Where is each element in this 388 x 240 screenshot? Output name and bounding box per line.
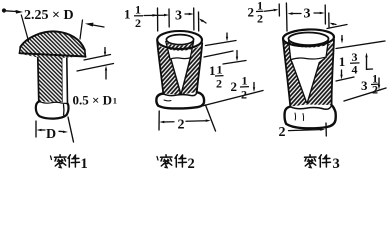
svg-text:1: 1 — [339, 54, 346, 69]
caption part3: char ling — [305, 155, 317, 168]
svg-text:4: 4 — [352, 63, 358, 77]
dim 0.5xD1 upper arrow — [104, 48, 106, 53]
shank right edge — [66, 58, 69, 104]
cup2 right outer wall — [197, 43, 202, 93]
caption part2: char jian — [175, 155, 187, 167]
extension tick t3 — [193, 8, 195, 30]
extension tick s3 — [324, 5, 326, 24]
svg-text:0.5 × D: 0.5 × D — [73, 93, 113, 108]
svg-text:2: 2 — [257, 12, 263, 26]
part3 right stack: extension line S1 — [327, 25, 347, 29]
cup3 hatched section — [283, 39, 334, 107]
part2 right stack: arrow down to R3 — [253, 83, 255, 88]
cup2 inner right wall — [190, 42, 193, 58]
cup3 base outline — [285, 105, 336, 128]
svg-text:2: 2 — [178, 118, 185, 133]
svg-text:D: D — [46, 127, 56, 142]
caption part3: char jian — [319, 155, 331, 167]
dim 3 left line/arrow — [292, 13, 301, 15]
shank left edge — [38, 58, 39, 103]
extension tick t2 — [168, 9, 170, 27]
svg-text:1: 1 — [81, 156, 88, 171]
svg-text:2: 2 — [188, 156, 195, 171]
dim 2 line with arrows — [163, 121, 174, 123]
svg-text:3: 3 — [361, 78, 368, 93]
dim 2 right extension (slanted) — [206, 105, 216, 131]
dim 2.25xD right arrowhead — [85, 23, 94, 27]
part3 right stack: arrow up (floating) — [341, 36, 343, 40]
cup2 cone right edge — [181, 59, 190, 94]
dim D right extension line (slanted) — [68, 117, 74, 142]
cup2 interior wavy line — [169, 57, 192, 59]
part2 right stack: arrow down to R1 — [226, 33, 228, 37]
dim 0.5xD1 lower arrow — [105, 70, 107, 79]
svg-text:2: 2 — [372, 83, 378, 97]
dim 2.25xD right leader line — [90, 25, 104, 28]
part3 right stack: arrow down to S3 — [378, 78, 380, 85]
rivet head right end face — [84, 50, 87, 57]
dim D left arrow — [41, 129, 45, 131]
svg-text:1: 1 — [209, 63, 216, 78]
rivet head dome outline — [20, 31, 85, 50]
svg-text:3: 3 — [175, 9, 182, 24]
svg-text:2: 2 — [241, 88, 247, 102]
part3 right stack: extension line S2b — [336, 77, 354, 81]
cup2 left outer wall — [157, 42, 163, 95]
rivet head left end face — [19, 47, 22, 53]
cup3 right outer wall — [332, 40, 334, 106]
cup2 base inner mark — [164, 99, 171, 102]
svg-text:2: 2 — [279, 125, 286, 140]
svg-text:1: 1 — [217, 63, 223, 77]
extension tick s4 — [328, 13, 330, 27]
shank cut inner edge — [61, 58, 63, 102]
extension tick t4 — [198, 12, 200, 31]
dim 1 1/2 line and arrows — [144, 14, 165, 16]
shank bottom cap outline — [36, 102, 69, 119]
dim 0.5xD1 upper extension line — [84, 55, 111, 61]
cup3 outer rim ellipse — [283, 29, 335, 47]
svg-text:1: 1 — [135, 3, 141, 17]
dim 2 1/2 leader — [265, 10, 274, 11]
dim 2.25xD left arrowhead — [16, 10, 24, 14]
shank bottom cap top wavy line — [39, 102, 68, 104]
extension tick s2 — [285, 3, 288, 31]
dim 2.25xD left leader line — [6, 10, 19, 13]
dim 2 (part2 bottom) left extension — [158, 111, 160, 130]
dim 2 (part3 bottom) line/arrows — [289, 130, 321, 131]
caption part1: char ling — [55, 155, 67, 168]
cup3 cone right edge — [307, 59, 324, 103]
cup2 outer rim ellipse — [157, 31, 202, 49]
dim 2.25xD left extension line — [21, 15, 28, 41]
caption part2: char ling — [161, 155, 173, 168]
cup2 base outline — [156, 92, 204, 108]
shank bottom cap inner vertical line — [63, 105, 65, 116]
cup3 base top wavy line — [290, 106, 331, 110]
cup3 cone left edge — [291, 60, 307, 103]
small arrow into t4 — [203, 21, 206, 23]
dim D left extension line — [35, 121, 37, 137]
extension tick s1 — [278, 4, 280, 16]
cup3 interior wavy line — [290, 57, 325, 60]
part2 right stack: extension line R2 — [204, 51, 233, 57]
svg-text:2: 2 — [248, 5, 255, 20]
dim 2.25xD left leader dot — [2, 8, 6, 12]
dim 2.25xD right extension line — [80, 20, 83, 39]
cup3 inner rim ellipse — [289, 33, 329, 46]
svg-text:2: 2 — [135, 16, 141, 30]
dim 0.5xD1 lower extension line — [77, 64, 114, 72]
svg-text:1: 1 — [242, 74, 248, 88]
rivet head underside edge — [20, 53, 86, 56]
cup2 hatched section — [157, 41, 202, 95]
svg-text:2: 2 — [216, 77, 222, 91]
svg-text:1: 1 — [124, 7, 131, 22]
cup2 base top wavy line — [163, 93, 197, 96]
caption part1: char jian — [68, 155, 80, 167]
cup2 cone left edge — [171, 60, 181, 94]
dim 3 line and arrow — [185, 13, 190, 15]
small arrow to s4 — [333, 23, 336, 26]
extension tick t1 — [157, 8, 159, 31]
part2 right stack: extension line R2b — [223, 61, 246, 65]
part3 right stack: bottom extension line S3 — [344, 88, 386, 101]
dim 2 right extension tick — [325, 123, 327, 136]
part2 right stack: rim-top extension line R1 — [206, 41, 237, 46]
dim D right arrow — [59, 130, 63, 132]
svg-text:2.25 × D: 2.25 × D — [24, 8, 74, 23]
part2 right stack: arrow down R2->R2b — [236, 51, 238, 58]
svg-text:2: 2 — [231, 79, 238, 94]
dim 3 right line/arrow — [314, 12, 320, 14]
cup3 base inner marks — [294, 113, 297, 120]
caption part2: apostrophe — [157, 157, 158, 161]
cup3 left outer wall — [283, 40, 290, 107]
cup2 inner rim ellipse — [166, 35, 193, 45]
part2 right stack: bottom extension line R3 — [202, 91, 263, 107]
cup3 inner left wall — [289, 41, 291, 59]
cup3 inner right wall — [326, 40, 328, 58]
rivet hatched section (head + shank) — [20, 31, 85, 102]
svg-text:1: 1 — [113, 96, 117, 106]
part3 right stack: dim line with up arrow — [366, 57, 368, 69]
cup2 inner left wall — [166, 42, 170, 59]
caption part1: apostrophe — [51, 156, 52, 160]
svg-text:3: 3 — [333, 156, 340, 171]
svg-text:3: 3 — [304, 7, 311, 22]
part3 right stack: arrow down to S2b — [341, 70, 343, 75]
part3 right stack: extension line S2 — [336, 41, 385, 49]
